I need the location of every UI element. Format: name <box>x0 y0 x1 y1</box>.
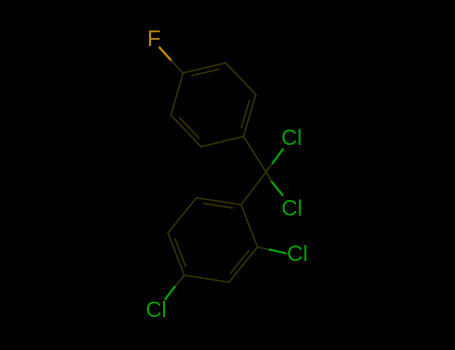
svg-text:Cl: Cl <box>281 125 302 150</box>
bond Ca-Cl2 : chlorine half <box>272 182 283 195</box>
bond Ca-Cl1 : carbon half <box>266 163 273 172</box>
bond B4-Cl4 : chlorine half <box>165 287 174 299</box>
svg-text:Cl: Cl <box>146 297 167 322</box>
bottom ring double bond inner line B1-B2 <box>204 203 233 208</box>
bond B0-Cl3 : carbon half <box>258 247 270 250</box>
bottom ring: 2,4-dichlorophenyl benzene ring <box>168 198 258 283</box>
svg-text:Cl: Cl <box>287 241 308 266</box>
bond Ca-Cl1 : chlorine half <box>273 149 283 163</box>
bottom ring double bond inner line B3-B4 <box>175 239 185 266</box>
svg-text:Cl: Cl <box>282 196 303 221</box>
top ring: 4-fluorophenyl benzene ring C1'-C6' <box>171 63 256 147</box>
bond B4-Cl4 : carbon half <box>175 275 185 287</box>
bond Ca-Cl2 : carbon half <box>266 172 272 182</box>
bond B0-Cl3 : chlorine half <box>270 250 286 254</box>
top ring double bond C5'-C6' inner line <box>180 118 199 138</box>
bond Ca to bottom ring ipso B1 <box>241 172 266 205</box>
svg-text:F: F <box>147 26 160 51</box>
bond C4' (top ring ipso) to central carbon Ca <box>244 136 267 172</box>
top ring double bond C1'-C2' inner line <box>192 69 219 76</box>
bottom ring double bond inner line B5-B0 <box>231 251 249 274</box>
bond F to C1' : F-colored half <box>160 48 172 61</box>
bond F to C1' : carbon half <box>171 61 183 74</box>
top ring double bond C3'-C4' inner line <box>241 101 249 128</box>
